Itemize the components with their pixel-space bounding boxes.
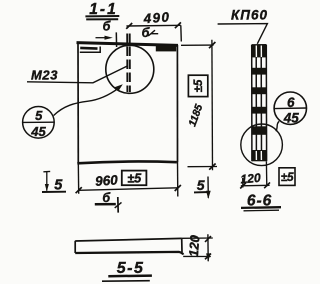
top gap dimension arrow (6)	[96, 37, 111, 39]
960 left extension	[77, 163, 79, 194]
+-5 box near 960	[122, 171, 147, 186]
column inner vertical lines	[255, 52, 257, 152]
column band 3	[252, 87, 266, 94]
title 1-1 underline	[85, 16, 119, 19]
balloon 6/45 leader	[276, 121, 279, 131]
120 rotated dim bottom extension	[183, 255, 211, 257]
490 right slash tick	[175, 22, 181, 28]
490 left slash tick	[126, 23, 132, 29]
svg-text:±5: ±5	[193, 79, 205, 92]
svg-text:б: б	[102, 191, 111, 205]
svg-text:490: 490	[142, 9, 171, 26]
detail circle on column	[241, 124, 283, 166]
panel front view left edge	[77, 44, 79, 163]
svg-text:6: 6	[287, 95, 295, 110]
top gap extension tick	[115, 32, 117, 47]
120 rotated dimension line	[207, 234, 209, 261]
KP60 leader line	[218, 24, 268, 44]
column band 2	[252, 68, 266, 75]
1185 top slash tick	[209, 42, 215, 48]
120 dim left extension	[242, 178, 244, 188]
dimension line 490	[126, 24, 180, 27]
section 6-6 column outline	[251, 45, 253, 162]
1185 bottom slash tick	[209, 164, 215, 170]
svg-text:5: 5	[197, 177, 205, 193]
right gap 5: underline	[194, 191, 210, 193]
anchor bolt M23 hidden dashed line	[126, 34, 128, 93]
+-5 rotated box near 1185	[188, 75, 207, 96]
panel front view bottom edge	[77, 161, 177, 163]
490 right extension line	[180, 25, 183, 41]
svg-text:960: 960	[95, 172, 119, 189]
120 rotated top slash tick	[205, 236, 211, 242]
svg-text:120: 120	[240, 171, 262, 187]
120 dimension line	[241, 184, 270, 187]
panel front view top edge	[77, 43, 179, 46]
svg-text:±5: ±5	[281, 172, 294, 184]
svg-text:120: 120	[186, 234, 203, 257]
120 rotated dim top extension	[182, 237, 213, 239]
leader line M23	[27, 66, 127, 83]
120 left slash tick	[240, 183, 246, 189]
left gap 5: arrow	[46, 172, 48, 191]
vertical dim 1185: dimension line	[211, 40, 214, 170]
vertical dim 1185: top extension	[181, 44, 214, 46]
panel front view right edge	[176, 45, 178, 162]
column band 1 (top cap)	[252, 45, 266, 58]
detail circle on front view	[106, 45, 154, 93]
tick slash right of b	[148, 30, 155, 36]
svg-text:КП60: КП60	[231, 8, 268, 23]
960 left slash tick	[76, 187, 82, 193]
svg-text:1-1: 1-1	[89, 1, 117, 18]
svg-text:М23: М23	[31, 68, 58, 83]
title 6-6 underline	[241, 206, 281, 209]
+-5 box near 6-6	[279, 168, 295, 186]
svg-text:6-6: 6-6	[247, 192, 272, 209]
column band 6 (bottom)	[252, 150, 267, 161]
svg-text:5: 5	[54, 177, 63, 193]
left gap 5: underline	[42, 191, 66, 193]
6 mark tick slash	[115, 202, 122, 208]
right corner notch (filled)	[156, 46, 176, 52]
960 right slash tick	[175, 185, 181, 191]
6 mark under 960: underline	[95, 203, 116, 206]
column band 5	[252, 126, 266, 135]
white slits in top cap	[256, 46, 261, 58]
svg-text:5-5: 5-5	[117, 260, 145, 277]
title 5-5 underline	[108, 274, 152, 277]
svg-text:б: б	[103, 19, 112, 33]
left corner notch	[80, 47, 100, 53]
right gap 5: arrow	[207, 177, 209, 198]
balloon 6/45 circle	[274, 92, 306, 124]
balloon 5/45 leader	[54, 88, 119, 115]
balloon 5/45 circle	[23, 107, 55, 139]
120 dim right extension from column	[265, 162, 267, 187]
vertical dim 1185: bottom extension	[188, 166, 218, 168]
120 rotated bottom slash tick	[205, 254, 211, 260]
120 rotated bottom arrow	[206, 253, 210, 261]
section 5-5 bar outline	[75, 238, 182, 241]
960 right extension	[177, 162, 179, 197]
960 dimension line	[79, 188, 178, 191]
svg-text:5: 5	[35, 108, 43, 123]
svg-text:45: 45	[283, 110, 300, 125]
120 right slash tick	[264, 182, 270, 188]
6 mark tick vertical	[117, 197, 119, 213]
svg-text:б: б	[142, 26, 151, 40]
svg-text:45: 45	[30, 124, 46, 139]
svg-text:±5: ±5	[127, 171, 142, 185]
column band 4	[252, 107, 266, 114]
